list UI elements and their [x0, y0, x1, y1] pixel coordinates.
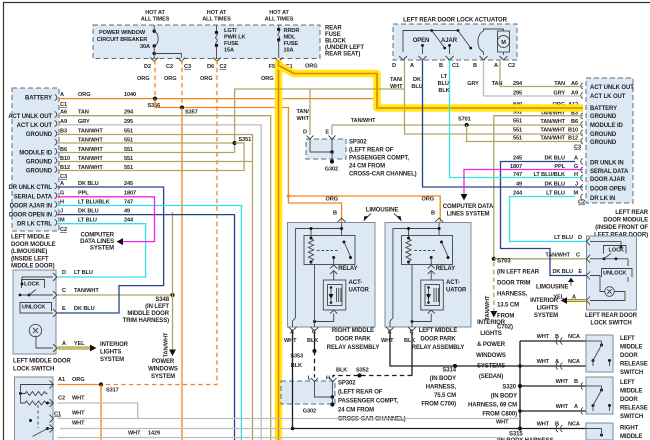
- svg-text:A: A: [410, 63, 414, 69]
- svg-text:F5: F5: [269, 64, 275, 70]
- wire TAN 294 left module A6 to right module A6: [58, 116, 271, 440]
- wire TAN 294 right segment: [500, 86, 583, 88]
- svg-text:WHT: WHT: [284, 338, 297, 344]
- svg-text:M: M: [573, 191, 578, 197]
- right lock switch lamp: [605, 287, 615, 297]
- left lock switch pin arrows: [53, 273, 57, 281]
- svg-text:LIMOUSINE: LIMOUSINE: [366, 208, 399, 214]
- svg-text:DR LK CTRL: DR LK CTRL: [17, 222, 52, 228]
- svg-text:LOCK: LOCK: [609, 248, 625, 254]
- svg-text:ORG: ORG: [164, 76, 176, 82]
- svg-text:10A: 10A: [284, 48, 294, 54]
- splice S317: [99, 382, 103, 386]
- svg-text:S314: S314: [442, 368, 456, 374]
- svg-text:747: 747: [124, 200, 133, 206]
- svg-text:RELAY: RELAY: [338, 266, 357, 272]
- ground G302 lower: [331, 397, 333, 403]
- svg-text:FROM C700): FROM C700): [421, 402, 456, 408]
- svg-text:FUSE: FUSE: [224, 41, 239, 47]
- wire TAN/WHT down to power windows system: [172, 212, 174, 350]
- svg-text:C1: C1: [54, 412, 61, 418]
- actuator bottom connector arrows: [399, 56, 407, 60]
- wire YEL to interior lights system: [58, 347, 91, 350]
- svg-text:UNLOCK: UNLOCK: [603, 271, 626, 277]
- wire TAN/WHT 551 ground bus right: [332, 124, 583, 126]
- svg-text:M: M: [60, 218, 65, 224]
- svg-text:SYSTEM: SYSTEM: [90, 246, 114, 252]
- svg-text:LEFT REAR: LEFT REAR: [615, 210, 649, 216]
- actuator door switch bus: [403, 31, 458, 53]
- svg-text:24 CM FROM: 24 CM FROM: [338, 408, 374, 414]
- wire ORG 1040 battery feed: [58, 98, 378, 100]
- svg-text:B: B: [574, 379, 578, 385]
- wire WHT to release switch 2 pin A: [520, 410, 586, 412]
- svg-text:COMPUTER: COMPUTER: [80, 233, 114, 239]
- wire ORG dashed drop from C2/C3: [181, 60, 183, 108]
- svg-text:B: B: [333, 211, 337, 217]
- svg-text:LOCK SWITCH: LOCK SWITCH: [590, 321, 631, 327]
- svg-text:(IN BODY: (IN BODY: [430, 376, 456, 382]
- svg-text:UATOR: UATOR: [349, 288, 370, 294]
- svg-text:SYSTEM: SYSTEM: [100, 357, 124, 363]
- svg-text:PPL: PPL: [78, 191, 89, 197]
- svg-text:LEFT REAR DOOR LOCK ACTUATOR: LEFT REAR DOOR LOCK ACTUATOR: [403, 18, 508, 24]
- svg-text:S348: S348: [155, 297, 169, 303]
- svg-text:(LEFT REAR OF: (LEFT REAR OF: [349, 148, 394, 154]
- svg-text:TAN/: TAN/: [297, 109, 310, 115]
- svg-text:ALL TIMES: ALL TIMES: [265, 17, 294, 23]
- svg-text:SYSTEMS: SYSTEMS: [477, 364, 505, 370]
- svg-text:UATOR: UATOR: [446, 288, 467, 294]
- svg-text:ACT LK OUT: ACT LK OUT: [17, 123, 53, 129]
- svg-text:245: 245: [513, 156, 522, 162]
- SP302 upper internal bus: [310, 139, 332, 152]
- svg-text:FROM: FROM: [497, 314, 514, 320]
- svg-text:MODULE ID: MODULE ID: [19, 151, 53, 157]
- svg-text:A: A: [572, 295, 576, 301]
- wire WHT to release switch 1 pin B: [520, 340, 586, 342]
- svg-text:LIGHTS: LIGHTS: [100, 350, 121, 356]
- svg-text:C3: C3: [60, 174, 67, 180]
- svg-text:WHT: WHT: [537, 359, 550, 365]
- svg-text:ACT LK OUT: ACT LK OUT: [590, 94, 626, 100]
- lock motor M: [498, 36, 510, 48]
- svg-text:COMPUTER DATA: COMPUTER DATA: [443, 204, 494, 210]
- svg-text:DATA LINES: DATA LINES: [80, 239, 114, 245]
- svg-text:30A: 30A: [140, 44, 150, 50]
- svg-text:M: M: [501, 40, 506, 46]
- svg-text:WHT: WHT: [72, 421, 85, 427]
- svg-text:WINDOWS: WINDOWS: [476, 353, 506, 359]
- svg-text:1807: 1807: [124, 191, 136, 197]
- svg-text:INTERIOR: INTERIOR: [530, 298, 559, 304]
- svg-text:S315: S315: [509, 432, 523, 438]
- svg-text:1040: 1040: [124, 92, 136, 98]
- svg-text:C2: C2: [58, 396, 65, 402]
- svg-text:B: B: [555, 334, 559, 340]
- wire ORG 840 highlighted circuit (yellow) vertical from F5: [275, 60, 283, 440]
- svg-text:DK BLU: DK BLU: [78, 181, 99, 187]
- svg-text:RELEASE: RELEASE: [620, 406, 648, 412]
- svg-text:INTERIOR: INTERIOR: [477, 320, 506, 326]
- svg-text:BLOCK: BLOCK: [325, 39, 347, 45]
- svg-text:LEFT MIDDLE DOOR: LEFT MIDDLE DOOR: [13, 359, 71, 365]
- svg-text:S351: S351: [239, 137, 252, 143]
- svg-text:A9: A9: [60, 119, 67, 125]
- svg-text:A: A: [555, 359, 559, 365]
- svg-text:(IN BODY: (IN BODY: [491, 394, 517, 400]
- svg-text:DOOR PARK: DOOR PARK: [335, 337, 371, 343]
- left rear door module U3: [586, 78, 633, 203]
- svg-text:TAN/WHT: TAN/WHT: [74, 288, 99, 294]
- svg-text:DOOR OPEN: DOOR OPEN: [590, 187, 626, 193]
- svg-text:C2: C2: [60, 227, 67, 233]
- left middle door module U1: [12, 88, 59, 231]
- wire LT BLU/BLK 747 actuator B to right module H: [450, 60, 584, 178]
- wire WHT to release switch 2 pin B: [520, 385, 586, 387]
- wire GRY 295 right segment: [484, 95, 584, 97]
- svg-text:B10: B10: [568, 128, 578, 134]
- svg-text:DK BLU: DK BLU: [544, 156, 565, 162]
- svg-text:PWR LK: PWR LK: [224, 35, 246, 41]
- svg-text:B6: B6: [571, 119, 578, 125]
- svg-text:BLK: BLK: [307, 338, 318, 344]
- svg-text:LIGHTS: LIGHTS: [480, 331, 501, 337]
- svg-text:MIDDLE: MIDDLE: [620, 345, 642, 351]
- splice pack SP302 upper: [306, 139, 346, 159]
- svg-text:S357: S357: [185, 110, 198, 116]
- svg-text:DOOR PARK: DOOR PARK: [420, 337, 456, 343]
- svg-text:DR UNLK IN: DR UNLK IN: [590, 161, 624, 167]
- svg-text:DOOR AJAR IN: DOOR AJAR IN: [10, 204, 52, 210]
- svg-text:NCA: NCA: [568, 359, 580, 365]
- svg-text:GROUND: GROUND: [590, 140, 617, 146]
- svg-text:ORG: ORG: [78, 92, 90, 98]
- splice pack SP302 lower: [281, 381, 335, 404]
- svg-text:C3: C3: [574, 145, 581, 151]
- left lock switch contacts: [22, 277, 53, 283]
- svg-text:D: D: [392, 63, 396, 69]
- splice S351: [233, 141, 237, 145]
- svg-text:(LEFT REAR OF: (LEFT REAR OF: [338, 390, 383, 396]
- svg-text:(INSIDE LEFT: (INSIDE LEFT: [11, 256, 49, 262]
- svg-text:WHT: WHT: [537, 422, 550, 428]
- svg-text:HARNESS, 69 CM: HARNESS, 69 CM: [468, 403, 517, 409]
- svg-text:GRY: GRY: [78, 119, 90, 125]
- svg-text:HOT AT: HOT AT: [207, 10, 227, 16]
- svg-text:LEFT MIDDLE: LEFT MIDDLE: [11, 235, 50, 241]
- svg-text:ORG: ORG: [326, 197, 338, 203]
- splice S357: [180, 105, 184, 109]
- wire BLK right relay C to SP302 H: [411, 332, 413, 376]
- relay bottom connector arrows: [289, 327, 297, 331]
- svg-text:TAN/WHT: TAN/WHT: [540, 136, 565, 142]
- svg-text:DOOR TRIM: DOOR TRIM: [497, 281, 531, 287]
- right lock switch pin arrows: [587, 237, 591, 245]
- svg-text:RELAY ASSEMBLY: RELAY ASSEMBLY: [327, 345, 380, 351]
- svg-text:H: H: [326, 376, 330, 382]
- wire ORG A1 to S317: [58, 384, 102, 386]
- svg-text:E: E: [62, 306, 66, 312]
- wire LT BLU 244 right module M to right lock switch D: [510, 197, 587, 242]
- svg-text:G302: G302: [325, 167, 338, 173]
- svg-text:G302: G302: [303, 409, 316, 415]
- svg-text:24 CM FROM: 24 CM FROM: [349, 164, 385, 170]
- wire GRY actuator B drop: [483, 60, 485, 96]
- svg-text:ALL TIMES: ALL TIMES: [202, 17, 231, 23]
- svg-text:C2: C2: [508, 63, 515, 69]
- svg-text:C: C: [410, 330, 414, 336]
- svg-text:LEFT MIDDLE: LEFT MIDDLE: [419, 328, 458, 334]
- svg-text:NCA: NCA: [568, 334, 580, 340]
- svg-text:LT BLU: LT BLU: [554, 235, 573, 241]
- svg-text:BATTERY: BATTERY: [25, 96, 52, 102]
- svg-text:TRIM HARNESS): TRIM HARNESS): [123, 318, 169, 324]
- svg-text:(UNDER LEFT: (UNDER LEFT: [325, 45, 364, 51]
- connector arrows at fuse block bottom: [150, 58, 158, 62]
- svg-text:LIGHTS: LIGHTS: [537, 306, 558, 312]
- svg-text:D6: D6: [207, 64, 214, 70]
- svg-text:C3: C3: [184, 64, 191, 70]
- svg-text:WINDOWS: WINDOWS: [148, 367, 178, 373]
- wire DK BLU 245 left module A to left lock switch E: [58, 187, 164, 313]
- svg-text:SERIAL DATA: SERIAL DATA: [590, 169, 629, 175]
- relay K1 internals: [338, 218, 346, 222]
- pin stubs: [422, 46, 424, 54]
- svg-text:TAN/WHT: TAN/WHT: [540, 119, 565, 125]
- svg-text:S703: S703: [497, 259, 511, 265]
- svg-text:FUSE: FUSE: [284, 41, 299, 47]
- wire TAN/WHT SP302 E drop: [331, 125, 333, 135]
- svg-text:C: C: [576, 253, 580, 259]
- splice S353: [312, 349, 316, 353]
- window switch pin arrows: [50, 381, 54, 389]
- wire DK BLU 49 left module J down: [58, 215, 235, 440]
- svg-text:(IN LEFT REAR: (IN LEFT REAR: [497, 270, 540, 276]
- svg-text:WHT: WHT: [496, 420, 509, 426]
- svg-text:FROM C800): FROM C800): [482, 412, 517, 418]
- svg-text:PASSENGER COMPT,: PASSENGER COMPT,: [349, 156, 409, 162]
- svg-text:HOT AT: HOT AT: [145, 10, 165, 16]
- svg-text:ACT UNLK OUT: ACT UNLK OUT: [590, 85, 634, 91]
- svg-text:H: H: [60, 200, 64, 206]
- wire TAN/WHT dashed to interior lights system: [493, 262, 495, 311]
- svg-text:TAN: TAN: [78, 110, 89, 116]
- svg-text:C2: C2: [166, 64, 173, 70]
- svg-text:MIDDLE: MIDDLE: [620, 434, 642, 440]
- svg-text:C1: C1: [452, 63, 459, 69]
- svg-text:S701: S701: [458, 117, 471, 123]
- svg-text:RIGHT MIDDLE: RIGHT MIDDLE: [332, 328, 374, 334]
- svg-text:D: D: [578, 235, 582, 241]
- svg-text:LT: LT: [441, 74, 448, 80]
- wire TAN/WHT B3 row from S703 vertical: [494, 116, 583, 259]
- open switch blade: [432, 31, 444, 48]
- wire WHT left relay A drop: [293, 332, 521, 429]
- svg-text:TAN/WHT: TAN/WHT: [351, 118, 376, 124]
- SP302 lower internal bus: [315, 382, 333, 398]
- svg-text:MIDDLE: MIDDLE: [620, 389, 642, 395]
- left middle door window switch box: [15, 377, 54, 440]
- svg-text:A: A: [60, 92, 64, 98]
- wire TAN/WHT 551 B6 left: [58, 152, 235, 154]
- wire PPL 1807 left module G to computer data lines: [58, 197, 155, 242]
- svg-text:HOT AT: HOT AT: [269, 10, 289, 16]
- splice S352: [357, 373, 361, 377]
- svg-text:DOOR MODULE: DOOR MODULE: [603, 218, 648, 224]
- svg-text:SP302: SP302: [338, 381, 356, 387]
- svg-text:TAN/WHT: TAN/WHT: [545, 253, 570, 259]
- svg-text:TAN/WHT: TAN/WHT: [485, 295, 491, 320]
- wire TAN/WHT actuator D drop to B10 row: [405, 60, 584, 134]
- svg-text:LOCK: LOCK: [24, 282, 40, 288]
- wire GRY 295: [58, 125, 262, 440]
- svg-text:1429: 1429: [148, 431, 160, 437]
- svg-text:DOOR MODULE: DOOR MODULE: [11, 242, 56, 248]
- svg-text:LIMOUSINE: LIMOUSINE: [536, 285, 569, 291]
- svg-text:295: 295: [124, 119, 133, 125]
- svg-text:REAR: REAR: [325, 26, 342, 32]
- svg-text:REAR SEAT): REAR SEAT): [325, 52, 360, 58]
- wire DK BLU 49 actuator A to right module J: [423, 60, 584, 187]
- svg-text:MODULE ID: MODULE ID: [590, 123, 624, 129]
- splice S348: [170, 293, 174, 297]
- svg-text:13.5 CM: 13.5 CM: [497, 303, 519, 309]
- svg-text:B: B: [555, 422, 559, 428]
- svg-text:SWITCH: SWITCH: [620, 414, 643, 420]
- svg-text:C: C: [312, 330, 316, 336]
- svg-text:INTERIOR: INTERIOR: [100, 342, 129, 348]
- svg-text:G: G: [60, 191, 64, 197]
- wire TAN/WHT 551 ground row to S351: [58, 142, 235, 144]
- svg-text:WHT: WHT: [381, 338, 394, 344]
- svg-text:ORG: ORG: [305, 64, 317, 70]
- svg-text:RIGHT: RIGHT: [620, 426, 639, 432]
- wire ORG dashed drop from D2: [154, 60, 156, 99]
- svg-text:DOOR AJAR: DOOR AJAR: [590, 177, 626, 183]
- wire WHT to release switch 1 pin A: [520, 365, 586, 367]
- wire TAN actuator A drop: [499, 60, 501, 87]
- svg-text:E: E: [325, 130, 329, 136]
- svg-text:HARNESS,: HARNESS,: [426, 385, 457, 391]
- release switch 3: [586, 423, 613, 440]
- wire ORG dashed drop from D6/C2 to S317: [103, 60, 217, 385]
- svg-text:S317: S317: [106, 388, 119, 394]
- svg-text:BLU: BLU: [411, 84, 422, 90]
- svg-text:MDL: MDL: [284, 35, 296, 41]
- svg-text:BATTERY: BATTERY: [590, 106, 617, 112]
- wire YEL right lock switch A to interior lights: [567, 299, 587, 302]
- svg-text:SWITCH: SWITCH: [620, 370, 643, 376]
- wire TAN/WHT 551 B12 left: [58, 143, 245, 171]
- svg-text:244: 244: [124, 218, 134, 224]
- svg-text:CIRCUIT BREAKER: CIRCUIT BREAKER: [97, 37, 147, 43]
- svg-text:NCA: NCA: [568, 422, 580, 428]
- wire ORG S317 down: [100, 385, 102, 440]
- svg-text:C1: C1: [60, 102, 67, 108]
- svg-text:S320: S320: [502, 385, 516, 391]
- svg-text:ACT-: ACT-: [349, 280, 363, 286]
- wire TAN/WHT to right lock switch C: [494, 258, 587, 260]
- right middle door park relay assembly box: [288, 223, 376, 328]
- svg-text:LOCK SWITCH: LOCK SWITCH: [13, 367, 54, 373]
- svg-text:(LIMOUSINE): (LIMOUSINE): [11, 249, 47, 255]
- svg-text:294: 294: [124, 110, 134, 116]
- wire LT BLU 244 left module M to left lock switch D: [58, 224, 146, 277]
- svg-text:POWER: POWER: [152, 359, 175, 365]
- svg-text:DR LK IN: DR LK IN: [590, 196, 615, 202]
- svg-text:SERIAL DATA: SERIAL DATA: [14, 195, 53, 201]
- release switch 1: [586, 335, 613, 372]
- svg-text:OPEN: OPEN: [413, 38, 430, 44]
- svg-text:DK BLU: DK BLU: [74, 306, 95, 312]
- svg-text:A: A: [62, 341, 66, 347]
- svg-text:LINES SYSTEM: LINES SYSTEM: [447, 212, 490, 218]
- svg-text:TAN/WHT: TAN/WHT: [78, 129, 103, 135]
- svg-text:ACT-: ACT-: [446, 280, 460, 286]
- wire WHT row via left relay A: [60, 428, 293, 430]
- svg-text:ORG: ORG: [261, 76, 273, 82]
- svg-text:DK BLU: DK BLU: [78, 209, 99, 215]
- window switch resistors: [21, 385, 54, 394]
- svg-text:(INSIDE FRONT OF: (INSIDE FRONT OF: [595, 225, 648, 231]
- splice S703: [492, 257, 496, 261]
- left lock switch lamp: [29, 324, 41, 336]
- svg-text:CROSS-CAR CHANNEL): CROSS-CAR CHANNEL): [349, 172, 417, 178]
- splice S315: [518, 426, 522, 430]
- svg-text:GRY: GRY: [467, 81, 479, 87]
- actuator sub box: [323, 280, 346, 310]
- svg-text:UNLOCK: UNLOCK: [22, 305, 45, 311]
- svg-text:LT BLU: LT BLU: [546, 191, 565, 197]
- svg-text:POWER WINDOW: POWER WINDOW: [99, 30, 146, 36]
- svg-text:551: 551: [513, 128, 522, 134]
- svg-text:GROUND: GROUND: [26, 169, 53, 175]
- svg-text:LEFT: LEFT: [620, 336, 635, 342]
- splice S320: [518, 384, 522, 388]
- svg-text:D: D: [62, 270, 66, 276]
- relay switch blade: [343, 241, 346, 244]
- node ORG branch junction: [287, 194, 290, 197]
- svg-text:LEFT: LEFT: [620, 380, 635, 386]
- svg-text:WHT: WHT: [72, 411, 85, 417]
- svg-text:PASSENGER COMPT,: PASSENGER COMPT,: [338, 399, 398, 405]
- svg-text:ORG: ORG: [200, 76, 212, 82]
- svg-text:BLK: BLK: [404, 338, 415, 344]
- svg-text:J: J: [60, 209, 63, 215]
- svg-text:A: A: [574, 156, 578, 162]
- svg-text:SYSTEM: SYSTEM: [151, 374, 175, 380]
- svg-text:BLK: BLK: [438, 88, 449, 94]
- svg-text:WHT: WHT: [72, 396, 85, 402]
- svg-text:551: 551: [513, 136, 522, 142]
- svg-text:C2: C2: [220, 64, 227, 70]
- svg-text:DOOR: DOOR: [620, 353, 638, 359]
- svg-text:A: A: [574, 404, 578, 410]
- svg-text:RELAY: RELAY: [436, 266, 455, 272]
- svg-text:D: D: [303, 130, 307, 136]
- svg-text:ORG: ORG: [422, 197, 434, 203]
- svg-text:RELEASE: RELEASE: [620, 362, 648, 368]
- left middle door lock switch SW1: [13, 270, 56, 354]
- wire WHT C2 jog: [58, 403, 138, 419]
- splice S701: [465, 123, 469, 127]
- svg-text:49: 49: [124, 209, 130, 215]
- svg-text:E: E: [578, 269, 582, 275]
- svg-text:B: B: [473, 63, 477, 69]
- wire PPL 1807 right module G to computer data lines: [464, 170, 583, 195]
- wire BLK left relay C to SP302 L: [314, 332, 316, 352]
